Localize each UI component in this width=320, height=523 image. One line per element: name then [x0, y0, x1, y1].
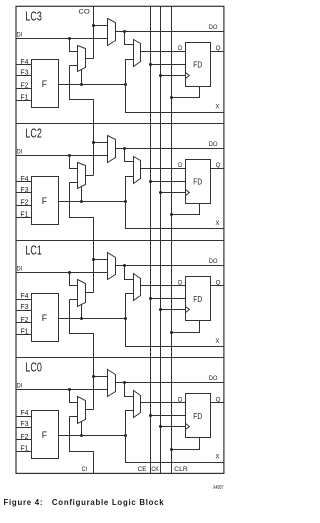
- svg-text:F: F: [42, 79, 48, 89]
- svg-text:D: D: [178, 279, 183, 286]
- divider line above LC0: [16, 357, 224, 359]
- wire X output line: [126, 436, 224, 463]
- wire mux C select tap from F output: [81, 305, 83, 319]
- wire input F1: [16, 100, 32, 102]
- svg-text:X: X: [215, 338, 219, 345]
- wire input F1: [16, 217, 32, 219]
- wire CLR to FD clear: [172, 87, 200, 98]
- wire mux B output to FD D input: [141, 285, 186, 287]
- svg-text:DO: DO: [209, 141, 218, 148]
- wire DI input line: [16, 38, 108, 40]
- flip-flop FD LC2: [186, 160, 211, 204]
- caption Figure 4: [4, 498, 165, 507]
- wire mux C input 2: [70, 182, 78, 184]
- svg-text:F4: F4: [20, 410, 28, 417]
- svg-text:LC0: LC0: [25, 361, 41, 375]
- svg-text:CE: CE: [138, 466, 147, 473]
- wire F output to mux B input 2: [126, 177, 134, 202]
- wire carry to mux A input 1: [94, 142, 108, 144]
- svg-text:F4: F4: [20, 176, 28, 183]
- function generator F LC0: [32, 411, 59, 459]
- wire DO line to mux B input 1: [125, 32, 134, 45]
- svg-text:FD: FD: [193, 177, 202, 187]
- svg-text:F1: F1: [20, 94, 28, 101]
- junction F output to mux B / X: [124, 83, 127, 86]
- junction CLR: [170, 213, 173, 216]
- svg-text:LC2: LC2: [25, 126, 41, 140]
- junction CLR: [170, 448, 173, 451]
- wire input F4: [16, 181, 32, 183]
- wire DI input line: [16, 389, 108, 391]
- wire mux C output to carry line: [86, 175, 94, 177]
- svg-text:F2: F2: [20, 200, 28, 207]
- wire input F4: [16, 299, 32, 301]
- CK net vertical line: [160, 7, 162, 474]
- svg-text:FD: FD: [193, 294, 202, 304]
- svg-text:F: F: [42, 430, 48, 440]
- junction CK: [159, 191, 162, 194]
- svg-text:F2: F2: [20, 434, 28, 441]
- junction F output to mux B / X: [124, 317, 127, 320]
- function generator F LC1: [32, 294, 59, 342]
- wire input F4: [16, 64, 32, 66]
- junction CE: [149, 414, 152, 417]
- wire FD Q output: [211, 168, 224, 170]
- wire mux B output to FD D input: [141, 402, 186, 404]
- junction F output to mux B / X: [124, 200, 127, 203]
- wire carry to mux A input 1: [94, 376, 108, 378]
- wire mux C output to carry line: [86, 292, 94, 294]
- wire F output to mux B input 2: [126, 294, 134, 319]
- CLR net vertical line: [171, 7, 173, 474]
- svg-text:LC3: LC3: [25, 9, 41, 23]
- svg-text:DO: DO: [209, 258, 218, 265]
- wire mux C output to carry line: [86, 409, 94, 411]
- wire mux B output to FD D input: [141, 168, 186, 170]
- svg-text:X: X: [215, 104, 219, 111]
- wire CLR to FD clear: [172, 438, 200, 450]
- svg-text:F2: F2: [20, 83, 28, 90]
- wire CE to FD: [151, 415, 186, 417]
- junction carry line to mux A: [92, 375, 95, 378]
- junction CLR: [170, 331, 173, 334]
- wire F output line: [59, 435, 126, 437]
- wire CK to FD clock: [161, 426, 186, 428]
- wire input F4: [16, 416, 32, 418]
- svg-text:CI: CI: [82, 466, 88, 473]
- svg-text:DO: DO: [209, 24, 218, 31]
- mux B flip-flop input mux LC1: [134, 274, 141, 301]
- wire DI input line: [16, 272, 108, 274]
- wire mux C select tap from F output: [81, 187, 83, 202]
- wire mux C select tap from F output: [81, 422, 83, 436]
- wire input F3: [16, 310, 32, 312]
- junction CK: [159, 308, 162, 311]
- wire CE to FD: [151, 181, 186, 183]
- wire CO carry vertical: [93, 7, 95, 59]
- mux C carry mux LC1: [78, 280, 86, 307]
- svg-text:Q: Q: [216, 279, 221, 286]
- svg-text:CLR: CLR: [174, 466, 188, 473]
- junction CK: [159, 74, 162, 77]
- wire CK to FD clock: [161, 192, 186, 194]
- mux A carry-out mux LC0: [108, 370, 116, 397]
- flip-flop FD LC3: [186, 43, 211, 87]
- svg-text:F3: F3: [20, 421, 28, 428]
- wire input F3: [16, 75, 32, 77]
- wire FD Q output: [211, 402, 224, 404]
- junction CE: [149, 180, 152, 183]
- wire FD Q output: [211, 285, 224, 287]
- mux A carry-out mux LC2: [108, 136, 116, 163]
- junction F output to mux C tap: [80, 83, 83, 86]
- wire carry chain from LC3 downward: [70, 66, 94, 176]
- wire CK to FD clock: [161, 75, 186, 77]
- junction DO line to mux B: [123, 381, 126, 384]
- wire mux B output to FD D input: [141, 51, 186, 53]
- wire CE to FD: [151, 64, 186, 66]
- wire mux A output to DO: [116, 382, 224, 384]
- wire input F2: [16, 88, 32, 90]
- wire input F1: [16, 451, 32, 453]
- junction CE: [149, 297, 152, 300]
- pin clock triangle: [186, 307, 190, 313]
- mux C carry mux LC3: [78, 46, 86, 72]
- wire mux A output to DO: [116, 148, 224, 150]
- wire carry chain from LC2 downward: [70, 183, 94, 293]
- junction carry line to mux A: [92, 141, 95, 144]
- wire X output line: [126, 85, 224, 113]
- wire carry to mux A input 1: [94, 25, 108, 27]
- svg-text:F1: F1: [20, 212, 28, 219]
- function generator F LC3: [32, 60, 59, 108]
- svg-text:F3: F3: [20, 70, 28, 77]
- wire CK to FD clock: [161, 309, 186, 311]
- svg-text:CO: CO: [78, 9, 89, 16]
- wire mux A output to DO: [116, 31, 224, 33]
- flip-flop FD LC0: [186, 394, 211, 438]
- flip-flop FD LC1: [186, 277, 211, 321]
- junction F output to mux C tap: [80, 317, 83, 320]
- wire CLR to FD clear: [172, 321, 200, 333]
- wire carry chain from LC1 downward: [70, 300, 94, 410]
- pin clock triangle: [186, 424, 190, 430]
- svg-text:CK: CK: [151, 466, 159, 473]
- svg-text:DI: DI: [17, 31, 23, 38]
- svg-text:DO: DO: [209, 375, 218, 382]
- svg-text:FD: FD: [193, 60, 202, 70]
- wire mux C input 2: [70, 299, 78, 301]
- mux A carry-out mux LC3: [108, 19, 116, 46]
- svg-text:D: D: [178, 396, 183, 403]
- wire DI to mux C input 1: [70, 390, 78, 403]
- svg-text:X4957: X4957: [213, 485, 223, 491]
- wire DI to mux C input 1: [70, 39, 78, 52]
- wire mux C input 2: [70, 416, 78, 418]
- wire CLR to FD clear: [172, 204, 200, 215]
- wire F output to mux B input 2: [126, 411, 134, 436]
- pin clock triangle: [186, 190, 190, 196]
- pin clock triangle: [186, 73, 190, 79]
- wire carry chain from LC0 downward: [70, 417, 94, 474]
- svg-text:D: D: [178, 162, 183, 169]
- svg-text:F3: F3: [20, 304, 28, 311]
- wire DI to mux C input 1: [70, 156, 78, 169]
- junction CLR: [170, 96, 173, 99]
- wire input F3: [16, 192, 32, 194]
- svg-text:DI: DI: [17, 383, 23, 390]
- junction CE: [149, 63, 152, 66]
- mux B flip-flop input mux LC0: [134, 391, 141, 418]
- junction DI to carry mux: [68, 154, 71, 157]
- wire DO line to mux B input 1: [125, 149, 134, 162]
- wire mux A output to DO: [116, 265, 224, 267]
- svg-text:F3: F3: [20, 187, 28, 194]
- CE net vertical line: [150, 7, 152, 474]
- svg-text:DI: DI: [17, 266, 23, 273]
- svg-text:LC1: LC1: [25, 244, 41, 258]
- mux A carry-out mux LC1: [108, 253, 116, 280]
- wire carry to mux A input 1: [94, 259, 108, 261]
- wire mux C output to carry line: [86, 58, 94, 60]
- divider line above LC2: [16, 123, 224, 125]
- junction DI to carry mux: [68, 37, 71, 40]
- junction CK: [159, 425, 162, 428]
- wire input F1: [16, 334, 32, 336]
- wire CE to FD: [151, 298, 186, 300]
- divider line above LC1: [16, 240, 224, 242]
- wire F output line: [59, 318, 126, 320]
- svg-text:X: X: [215, 220, 219, 227]
- junction F output to mux C tap: [80, 200, 83, 203]
- mux C carry mux LC0: [78, 397, 86, 424]
- junction DI to carry mux: [68, 271, 71, 274]
- svg-text:F: F: [42, 196, 48, 206]
- mux B flip-flop input mux LC2: [134, 157, 141, 184]
- mux C carry mux LC2: [78, 163, 86, 189]
- svg-text:Q: Q: [216, 45, 221, 52]
- wire DO line to mux B input 1: [125, 266, 134, 280]
- wire F output to mux B input 2: [126, 60, 134, 85]
- junction F output to mux B / X: [124, 434, 127, 437]
- wire input F2: [16, 205, 32, 207]
- wire input F3: [16, 427, 32, 429]
- svg-text:F: F: [42, 313, 48, 323]
- wire DI to mux C input 1: [70, 273, 78, 286]
- wire X output line: [126, 319, 224, 347]
- svg-text:F4: F4: [20, 293, 28, 300]
- junction F output to mux C tap: [80, 434, 83, 437]
- junction carry line to mux A: [92, 24, 95, 27]
- svg-text:F2: F2: [20, 317, 28, 324]
- svg-text:Q: Q: [216, 396, 221, 403]
- wire F output line: [59, 84, 126, 86]
- svg-text:F1: F1: [20, 329, 28, 336]
- junction DO line to mux B: [123, 147, 126, 150]
- wire FD Q output: [211, 51, 224, 53]
- svg-text:D: D: [178, 45, 183, 52]
- wire input F2: [16, 322, 32, 324]
- outer CLB box: [16, 6, 224, 473]
- wire DI input line: [16, 155, 108, 157]
- wire mux C input 2: [70, 65, 78, 67]
- svg-text:F1: F1: [20, 446, 28, 453]
- junction DO line to mux B: [123, 30, 126, 33]
- mux B flip-flop input mux LC3: [134, 40, 141, 67]
- function generator F LC2: [32, 177, 59, 225]
- junction DI to carry mux: [68, 388, 71, 391]
- wire F output line: [59, 201, 126, 203]
- wire X output line: [126, 202, 224, 229]
- junction carry line to mux A: [92, 258, 95, 261]
- wire mux C select tap from F output: [81, 70, 83, 85]
- wire DO line to mux B input 1: [125, 383, 134, 397]
- wire input F2: [16, 439, 32, 441]
- svg-text:F4: F4: [20, 59, 28, 66]
- junction DO line to mux B: [123, 264, 126, 267]
- svg-text:FD: FD: [193, 411, 202, 421]
- svg-text:DI: DI: [17, 148, 23, 155]
- svg-text:Q: Q: [216, 162, 221, 169]
- svg-text:X: X: [215, 454, 219, 461]
